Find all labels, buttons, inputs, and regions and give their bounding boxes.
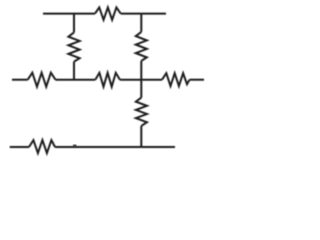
node B (top junction right) (140, 13, 142, 15)
wire vertical from node D down to R7 (140, 80, 142, 98)
wire vertical from R3 down to node D (140, 61, 142, 80)
node C (middle junction left) (73, 79, 75, 81)
wire vertical from R2 down to middle wire (73, 62, 75, 80)
wire middle between R4 and node C (56, 79, 75, 81)
node A (top junction left) (73, 13, 75, 15)
wire middle between node D and R6 (141, 79, 162, 81)
node E (bottom junction) (140, 146, 142, 148)
resistor R6 (162, 73, 190, 86)
wire middle-left stub (12, 79, 28, 81)
wire top-right segment (141, 13, 166, 15)
wire top-left segment (43, 13, 74, 15)
wire bottom-right segment (141, 146, 175, 148)
node D (middle cross junction) (140, 79, 142, 81)
wire vertical from node B down to R3 (140, 14, 142, 32)
wire middle-right stub (190, 79, 205, 81)
resistor R7 (136, 98, 147, 126)
resistor R8 (29, 140, 55, 153)
wire top between R1 and node B (121, 13, 142, 15)
resistor R4 (28, 73, 56, 87)
resistor R5 (95, 73, 120, 87)
junction dot artifact on bottom wire (73, 144, 77, 146)
resistor R1 (95, 7, 121, 19)
resistor R2 (68, 32, 79, 61)
wire bottom between R8 and node E (55, 146, 141, 148)
wire vertical from node A down to R2 (73, 14, 75, 33)
wire middle between node C and R5 (74, 79, 95, 81)
wire vertical from R7 down to node E (140, 126, 142, 147)
wire middle between R5 and node D (120, 79, 141, 81)
wire bottom-left stub (10, 146, 29, 148)
wire top between node A and R1 (74, 13, 95, 15)
resistor R3 (136, 32, 147, 61)
